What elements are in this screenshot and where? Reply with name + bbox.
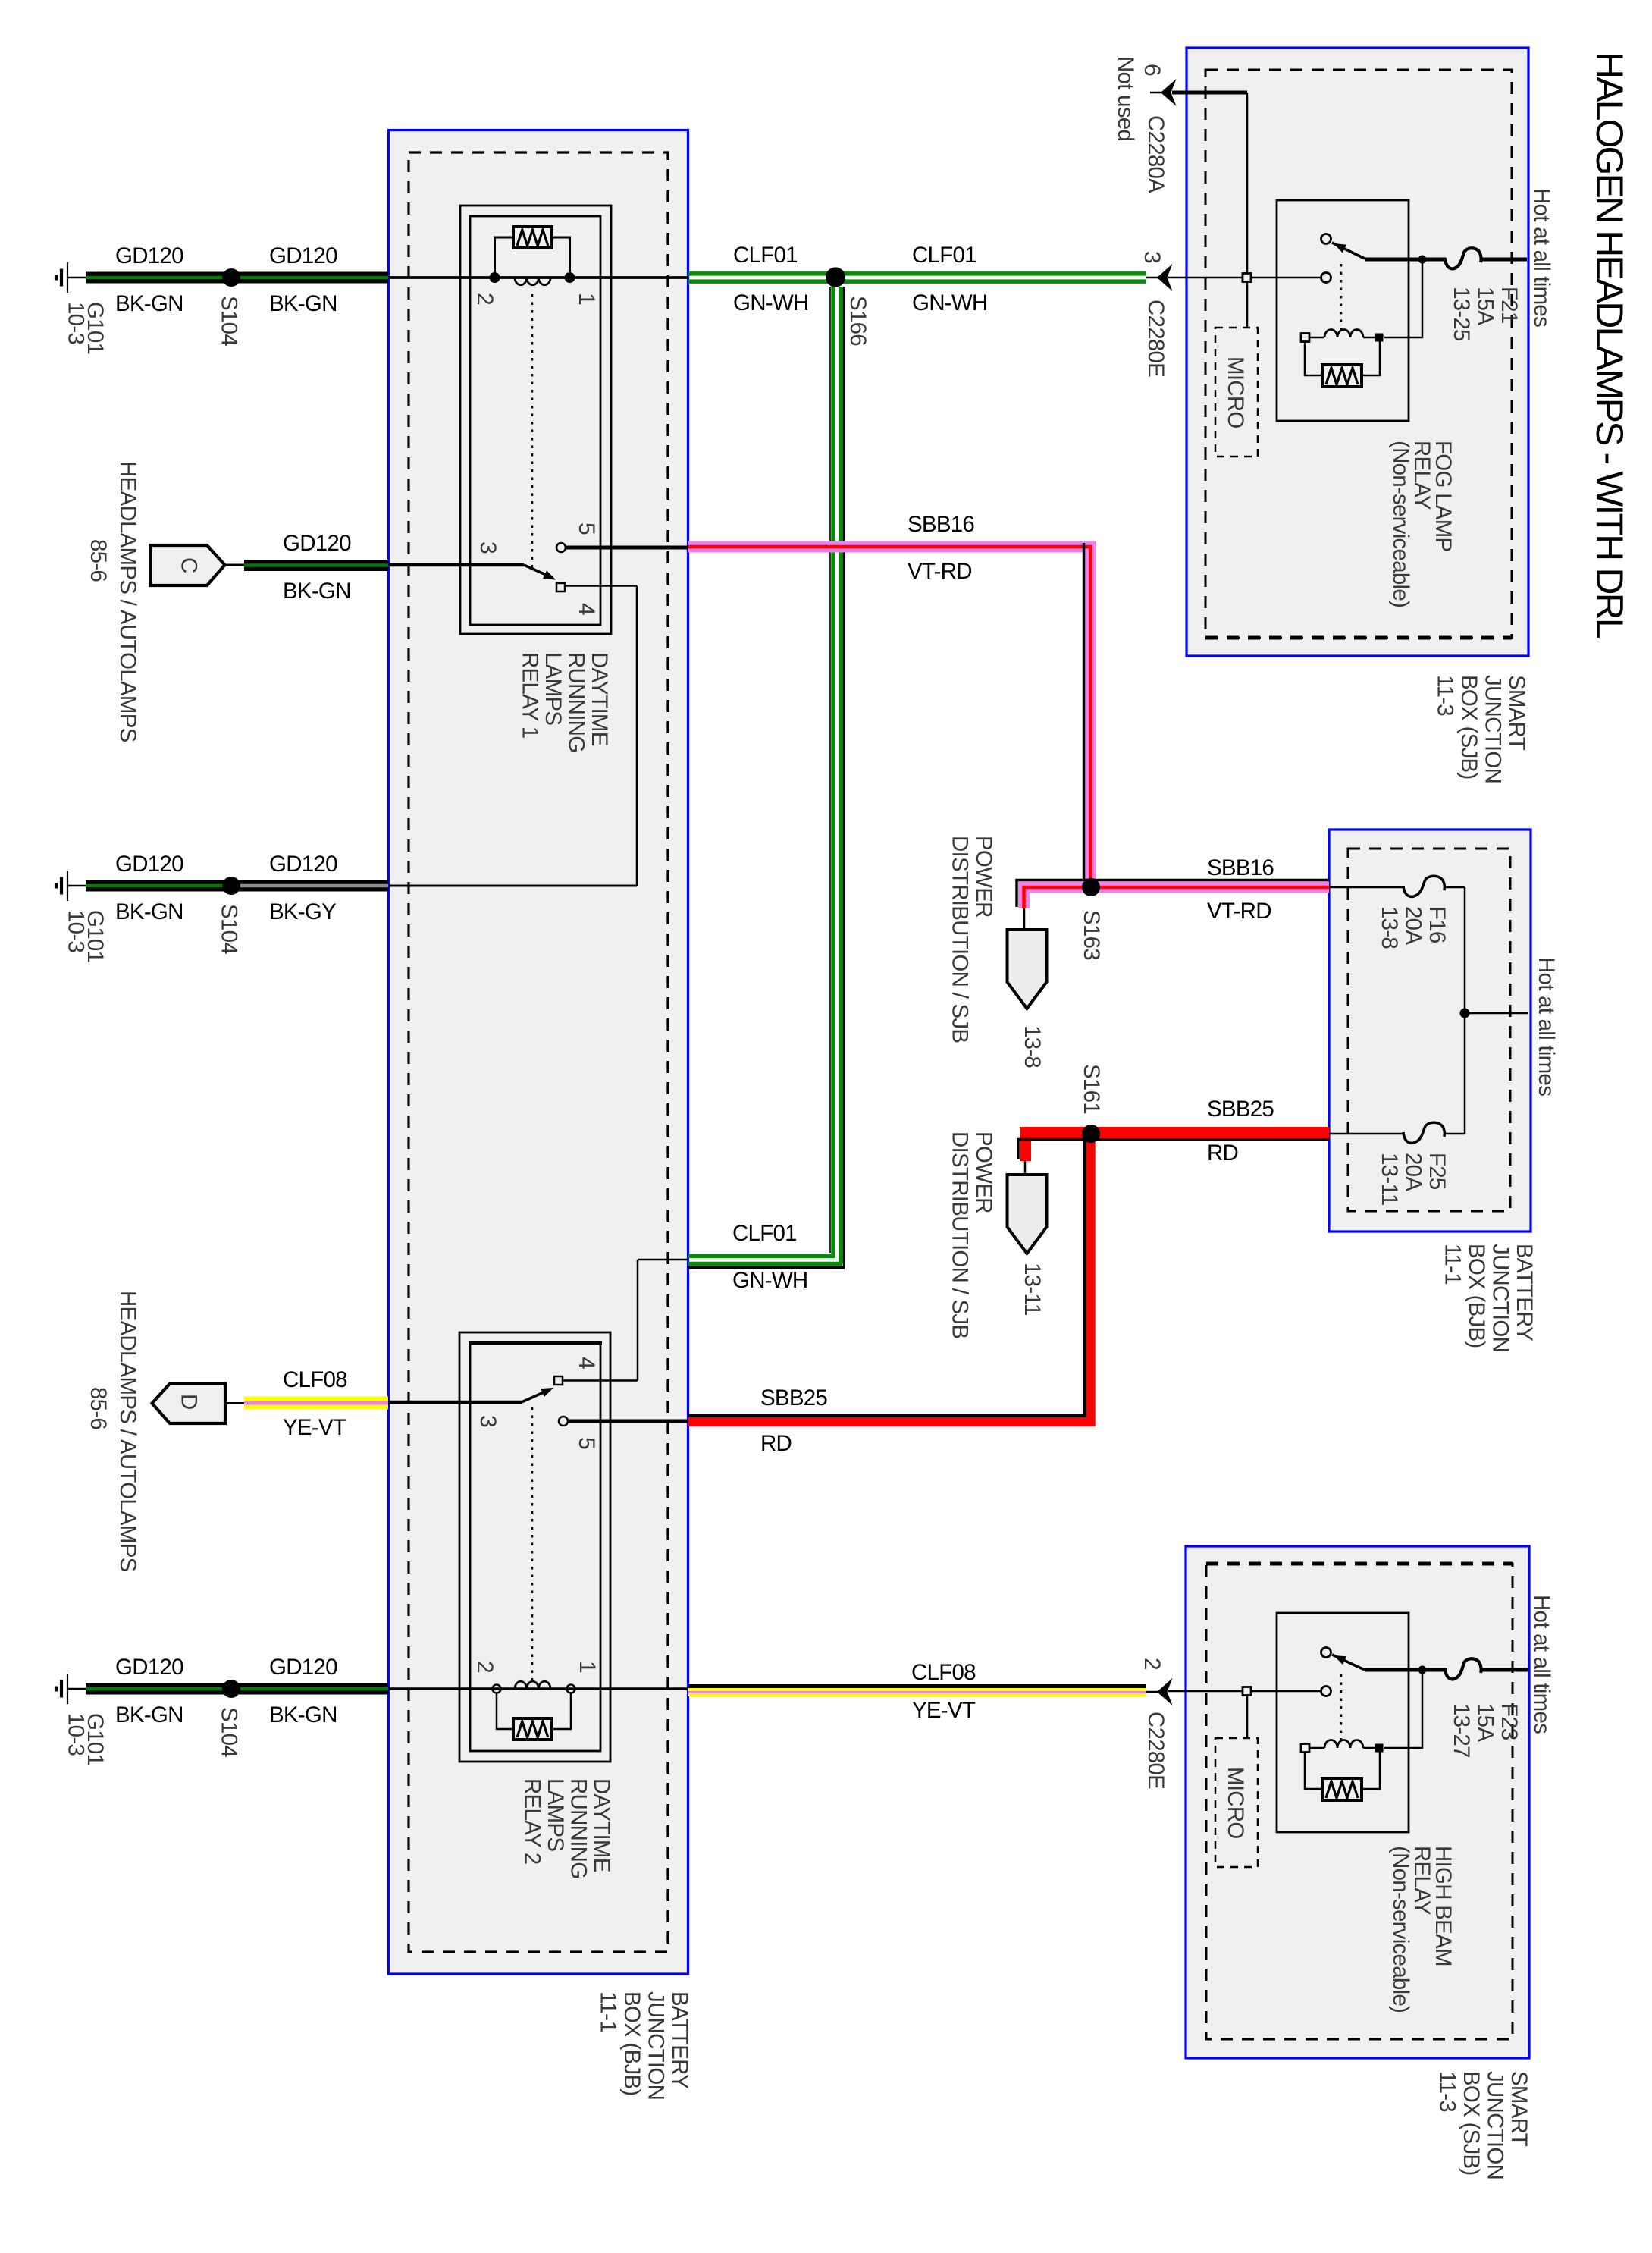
svg-text:HEADLAMPS / AUTOLAMPS: HEADLAMPS / AUTOLAMPS: [115, 1291, 140, 1572]
svg-text:GD120: GD120: [269, 852, 337, 877]
svg-text:S104: S104: [217, 296, 242, 346]
svg-text:85-6: 85-6: [86, 539, 111, 582]
svg-text:Not used: Not used: [1113, 56, 1138, 141]
svg-text:SMART: SMART: [1504, 675, 1529, 751]
svg-text:11-1: 11-1: [596, 1991, 621, 2032]
svg-text:13-11: 13-11: [1377, 1153, 1402, 1206]
svg-text:RELAY 1: RELAY 1: [518, 652, 543, 738]
svg-text:13-8: 13-8: [1377, 906, 1402, 949]
svg-text:S166: S166: [845, 296, 870, 346]
svg-text:GN-WH: GN-WH: [912, 290, 987, 315]
svg-text:4: 4: [574, 1357, 599, 1369]
svg-text:JUNCTION: JUNCTION: [1483, 2071, 1508, 2179]
svg-text:Hot at all times: Hot at all times: [1534, 957, 1559, 1096]
svg-text:4: 4: [574, 603, 599, 615]
svg-text:F16: F16: [1425, 906, 1450, 943]
svg-text:BK-GY: BK-GY: [269, 899, 337, 924]
svg-text:S163: S163: [1079, 910, 1104, 960]
svg-text:GD120: GD120: [115, 852, 183, 877]
svg-text:13-11: 13-11: [1020, 1263, 1045, 1316]
svg-text:15A: 15A: [1473, 1703, 1498, 1742]
svg-text:2: 2: [472, 1661, 497, 1673]
svg-text:BOX (SJB): BOX (SJB): [1459, 2071, 1484, 2176]
svg-text:11-1: 11-1: [1440, 1244, 1465, 1285]
svg-text:SMART: SMART: [1506, 2071, 1531, 2147]
svg-text:RD: RD: [1207, 1141, 1238, 1166]
svg-text:LAMPS: LAMPS: [541, 652, 566, 725]
svg-text:10-3: 10-3: [64, 1713, 89, 1756]
svg-text:Hot at all times: Hot at all times: [1529, 1595, 1554, 1734]
svg-text:13-8: 13-8: [1020, 1025, 1045, 1068]
svg-text:VT-RD: VT-RD: [1207, 899, 1271, 924]
svg-text:C: C: [177, 557, 202, 573]
svg-text:GD120: GD120: [269, 1655, 337, 1680]
svg-text:CLF01: CLF01: [732, 1221, 797, 1246]
svg-text:2: 2: [1139, 1658, 1165, 1670]
svg-text:VT-RD: VT-RD: [908, 559, 972, 584]
svg-text:YE-VT: YE-VT: [912, 1698, 976, 1723]
svg-text:MICRO: MICRO: [1223, 356, 1248, 428]
svg-text:CLF08: CLF08: [911, 1660, 976, 1685]
svg-text:POWER: POWER: [971, 836, 996, 918]
svg-text:HALOGEN HEADLAMPS - WITH DRL: HALOGEN HEADLAMPS - WITH DRL: [1588, 52, 1631, 639]
svg-text:RUNNING: RUNNING: [564, 652, 589, 752]
svg-text:(Non-serviceable): (Non-serviceable): [1388, 1846, 1413, 2013]
svg-text:GD120: GD120: [283, 531, 351, 556]
svg-text:BOX (BJB): BOX (BJB): [1464, 1244, 1489, 1348]
svg-text:C2280A: C2280A: [1143, 115, 1168, 193]
svg-text:RELAY 2: RELAY 2: [520, 1778, 545, 1864]
svg-text:DAYTIME: DAYTIME: [589, 1778, 614, 1872]
svg-text:SBB25: SBB25: [1207, 1097, 1274, 1122]
svg-text:BOX (BJB): BOX (BJB): [619, 1991, 644, 2096]
svg-text:HEADLAMPS / AUTOLAMPS: HEADLAMPS / AUTOLAMPS: [115, 461, 140, 742]
svg-text:3: 3: [475, 541, 500, 554]
svg-text:10-3: 10-3: [64, 302, 89, 344]
svg-text:F23: F23: [1497, 1703, 1522, 1740]
svg-text:3: 3: [475, 1415, 500, 1427]
svg-text:BK-GN: BK-GN: [269, 291, 337, 316]
svg-text:DISTRIBUTION / SJB: DISTRIBUTION / SJB: [948, 836, 973, 1043]
svg-text:S104: S104: [217, 904, 242, 954]
svg-text:CLF01: CLF01: [733, 243, 798, 268]
svg-text:JUNCTION: JUNCTION: [1481, 675, 1506, 783]
svg-text:6: 6: [1139, 64, 1165, 76]
svg-text:CLF01: CLF01: [912, 243, 976, 268]
svg-text:RUNNING: RUNNING: [566, 1778, 591, 1878]
svg-text:5: 5: [574, 1437, 599, 1449]
svg-text:GD120: GD120: [115, 243, 183, 268]
svg-text:10-3: 10-3: [64, 910, 89, 952]
svg-text:S104: S104: [217, 1707, 242, 1757]
svg-text:2: 2: [472, 293, 497, 305]
svg-text:85-6: 85-6: [86, 1387, 111, 1429]
svg-text:C2280E: C2280E: [1143, 1712, 1168, 1789]
svg-text:(Non-serviceable): (Non-serviceable): [1388, 441, 1413, 607]
svg-text:11-3: 11-3: [1433, 675, 1458, 716]
svg-text:C2280E: C2280E: [1143, 300, 1168, 377]
svg-text:YE-VT: YE-VT: [283, 1415, 346, 1440]
svg-text:F25: F25: [1425, 1153, 1450, 1190]
svg-text:GD120: GD120: [269, 243, 337, 268]
svg-text:RD: RD: [760, 1431, 792, 1456]
svg-text:BOX (SJB): BOX (SJB): [1456, 675, 1481, 780]
svg-text:13-27: 13-27: [1449, 1703, 1474, 1758]
svg-text:S161: S161: [1079, 1064, 1104, 1114]
svg-text:3: 3: [1139, 251, 1165, 263]
svg-text:11-3: 11-3: [1435, 2071, 1460, 2112]
svg-text:SBB25: SBB25: [760, 1385, 827, 1410]
svg-text:BATTERY: BATTERY: [667, 1991, 692, 2089]
svg-text:JUNCTION: JUNCTION: [644, 1991, 669, 2100]
svg-text:BATTERY: BATTERY: [1512, 1244, 1537, 1341]
svg-text:BK-GN: BK-GN: [115, 1702, 183, 1727]
svg-text:1: 1: [574, 293, 599, 305]
svg-text:15A: 15A: [1473, 287, 1498, 325]
svg-text:BK-GN: BK-GN: [115, 291, 183, 316]
svg-text:CLF08: CLF08: [283, 1367, 347, 1392]
svg-text:BK-GN: BK-GN: [269, 1702, 337, 1727]
svg-text:MICRO: MICRO: [1223, 1767, 1248, 1839]
svg-text:F21: F21: [1497, 287, 1522, 324]
svg-text:GN-WH: GN-WH: [732, 1268, 807, 1293]
svg-text:BK-GN: BK-GN: [115, 899, 183, 924]
svg-text:20A: 20A: [1401, 1153, 1426, 1191]
svg-text:POWER: POWER: [971, 1131, 996, 1213]
svg-text:GN-WH: GN-WH: [733, 290, 808, 315]
svg-text:D: D: [177, 1394, 202, 1410]
svg-text:SBB16: SBB16: [908, 512, 974, 537]
svg-text:20A: 20A: [1401, 906, 1426, 945]
svg-text:BK-GN: BK-GN: [283, 579, 351, 604]
svg-text:DISTRIBUTION / SJB: DISTRIBUTION / SJB: [948, 1131, 973, 1338]
svg-text:SBB16: SBB16: [1207, 855, 1274, 880]
svg-text:1: 1: [575, 1661, 600, 1673]
svg-text:LAMPS: LAMPS: [543, 1778, 568, 1851]
svg-text:Hot at all times: Hot at all times: [1529, 188, 1554, 327]
svg-text:GD120: GD120: [115, 1655, 183, 1680]
svg-text:13-25: 13-25: [1449, 287, 1474, 341]
svg-text:5: 5: [574, 522, 599, 535]
svg-text:DAYTIME: DAYTIME: [587, 652, 612, 746]
svg-text:JUNCTION: JUNCTION: [1488, 1244, 1513, 1352]
